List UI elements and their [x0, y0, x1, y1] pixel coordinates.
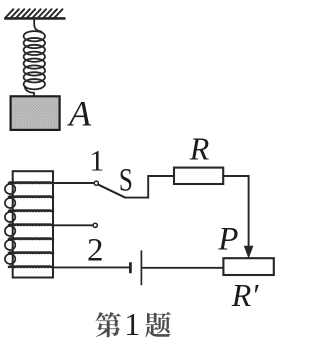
svg-text:2: 2 — [87, 232, 104, 268]
svg-text:1: 1 — [89, 145, 104, 178]
svg-text:R′: R′ — [231, 277, 260, 313]
svg-text:R: R — [189, 131, 210, 167]
svg-text:A: A — [67, 94, 92, 134]
svg-text:1: 1 — [124, 306, 140, 342]
svg-text:S: S — [119, 162, 133, 198]
svg-text:P: P — [217, 222, 238, 258]
